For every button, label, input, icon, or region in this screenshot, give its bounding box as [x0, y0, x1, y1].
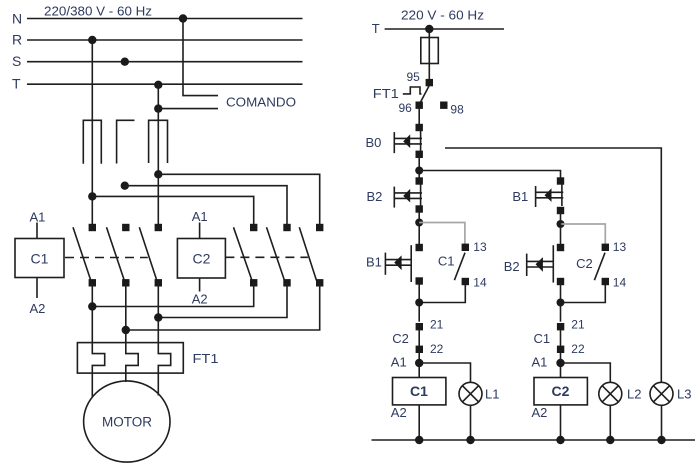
junction feeder 3 — [88, 192, 96, 200]
blade C2 13-14 — [594, 253, 605, 281]
wire pilot feeder to L3 — [445, 148, 661, 382]
fuse F2 — [117, 120, 135, 163]
junction A1 C2 — [556, 359, 564, 367]
wire latch C2 rejoin — [561, 285, 606, 303]
svg-text:R: R — [12, 32, 22, 48]
terminal 14 of C2 — [602, 278, 609, 285]
svg-text:C1: C1 — [410, 383, 428, 399]
svg-text:A2: A2 — [30, 301, 46, 316]
svg-text:220 V - 60 Hz: 220 V - 60 Hz — [401, 9, 484, 23]
pushbutton B1 NC — [536, 184, 564, 208]
wire comando tap — [158, 108, 218, 110]
wire control supply line — [385, 28, 504, 30]
heater element 1 — [92, 343, 104, 374]
junction feeder 2 — [121, 182, 129, 190]
wire B1s to junction — [418, 281, 420, 322]
svg-text:FT1: FT1 — [373, 86, 399, 101]
blade 21-22 of C1 — [560, 330, 562, 346]
junction branch to B1 column — [415, 167, 423, 175]
contactor coil C2 — [177, 239, 225, 279]
fuse F1 — [83, 120, 101, 163]
svg-text:220/380 V - 60 Hz: 220/380 V - 60 Hz — [44, 5, 152, 19]
wire A2 stub C1 — [36, 278, 38, 299]
terminal B2s bottom — [557, 278, 564, 285]
svg-text:C2: C2 — [552, 383, 570, 399]
terminal 22 of C1 — [557, 346, 564, 353]
wire line R — [27, 39, 303, 41]
wire lamp L3 to bus — [661, 405, 663, 440]
wire gray latch branch C2 — [561, 224, 606, 244]
wire 22 to A1 C1 — [418, 352, 420, 378]
terminal B1 top — [557, 177, 564, 184]
svg-text:A2: A2 — [391, 405, 407, 420]
wire bottom bus — [372, 439, 696, 441]
svg-text:C1: C1 — [438, 253, 455, 268]
wire lamp L1 to bus — [470, 405, 472, 440]
lamp L2 — [599, 382, 622, 405]
coil C2 box — [534, 378, 587, 405]
terminal 21 of C2 — [416, 323, 423, 330]
wire line N — [27, 18, 303, 20]
wire cross link contact6 — [126, 283, 320, 330]
terminal 13 of C2 — [602, 244, 609, 251]
wire cross link contact4 — [92, 283, 253, 307]
svg-text:96: 96 — [399, 101, 413, 115]
svg-text:T: T — [12, 76, 21, 92]
wire N drop to comando — [183, 19, 218, 96]
wire FT1 to motor 2 — [125, 373, 127, 382]
terminal 98 — [440, 102, 447, 109]
blade contact6 — [299, 227, 316, 280]
wire line T — [27, 83, 303, 85]
svg-text:98: 98 — [450, 103, 464, 117]
wire B2s to junction — [560, 282, 562, 322]
wire motor lead 1 — [91, 283, 93, 343]
terminal contact5 top — [283, 224, 290, 231]
wire motor lead 2 — [125, 283, 127, 343]
svg-text:B0: B0 — [366, 135, 382, 150]
wire branch to lamp L2 — [561, 363, 611, 382]
wire B1 to B2s — [560, 211, 562, 244]
wire feeder 2 to contact 5 — [125, 186, 287, 227]
blade contact1 — [73, 227, 91, 281]
svg-text:22: 22 — [571, 342, 585, 356]
mechanical link C2 dashed — [225, 256, 308, 258]
svg-text:T: T — [372, 21, 380, 36]
motor M1 circle — [84, 381, 170, 462]
terminal contact4 top — [250, 224, 257, 231]
svg-text:A1: A1 — [391, 354, 407, 369]
wire B0 to B2 — [418, 157, 420, 178]
junction bus L2 — [606, 436, 614, 444]
svg-text:21: 21 — [571, 318, 585, 332]
terminal 96 — [416, 102, 423, 109]
terminal contact2 bottom — [122, 279, 129, 286]
mechanical link C1 dashed — [65, 257, 148, 259]
svg-text:A2: A2 — [532, 405, 548, 420]
svg-text:FT1: FT1 — [193, 351, 219, 366]
junction below B1s — [415, 299, 423, 307]
svg-text:S: S — [12, 53, 21, 69]
pushbutton B0 NC — [394, 129, 422, 153]
junction control supply — [425, 25, 433, 33]
wire feeder 1 to contact 6 — [158, 174, 319, 227]
coil C1 box — [393, 378, 446, 405]
wire cross link contact5 — [158, 283, 287, 318]
junction bus L1 — [466, 436, 474, 444]
svg-text:C1: C1 — [31, 251, 49, 267]
svg-text:B1: B1 — [366, 255, 382, 270]
blade contact3 — [139, 227, 157, 281]
terminal B1 bottom — [557, 207, 564, 214]
terminal contact2 top — [122, 224, 129, 231]
blade contact5 — [267, 227, 285, 280]
terminal B1s bottom — [416, 277, 423, 284]
svg-text:B1: B1 — [512, 189, 528, 204]
blade 21-22 of C2 — [418, 330, 420, 346]
junction bus L3 — [657, 436, 665, 444]
junction on T — [154, 81, 162, 89]
junction latch C1 — [415, 219, 423, 227]
heater element 3 — [158, 343, 170, 374]
svg-text:MOTOR: MOTOR — [102, 415, 152, 430]
terminal B2 top — [416, 177, 423, 184]
junction cross link 3 — [154, 313, 162, 321]
terminal contact4 bottom — [250, 279, 257, 286]
terminal contact1 bottom — [89, 279, 96, 286]
junction latch C2 — [557, 220, 565, 228]
svg-text:B2: B2 — [367, 189, 383, 204]
terminal 21 of C1 — [557, 323, 564, 330]
terminal contact3 top — [155, 224, 162, 231]
wire motor lead 3 — [157, 283, 159, 343]
svg-text:C2: C2 — [576, 256, 593, 271]
fuse F3 — [149, 120, 168, 163]
junction bus C2 — [556, 436, 564, 444]
junction A1 C1 — [415, 359, 423, 367]
svg-text:N: N — [12, 11, 22, 27]
lamp L1 — [459, 382, 482, 405]
terminal 22 of C2 — [416, 346, 423, 353]
terminal B0 top — [416, 124, 423, 131]
svg-text:L2: L2 — [627, 387, 641, 402]
blade contact2 — [107, 227, 125, 281]
junction feeder 1 — [154, 170, 162, 178]
terminal B0 bottom — [416, 151, 423, 158]
wire FT1 to motor 3 — [157, 373, 159, 395]
wire R phase drop — [91, 40, 93, 227]
blade contact4 — [234, 227, 253, 280]
svg-text:L1: L1 — [485, 387, 499, 402]
svg-text:A1: A1 — [532, 354, 548, 369]
svg-text:COMANDO: COMANDO — [226, 95, 296, 110]
junction cross link 2 — [122, 326, 130, 334]
terminal contact6 bottom — [316, 279, 323, 286]
svg-text:C2: C2 — [193, 251, 211, 267]
svg-text:14: 14 — [613, 275, 627, 289]
terminal 13 of C1 — [462, 244, 469, 251]
terminal contact1 top — [89, 224, 96, 231]
wire A1 stub C2 — [199, 223, 201, 239]
junction comando tap — [154, 104, 162, 112]
svg-text:13: 13 — [473, 240, 487, 254]
contactor coil C1 — [15, 239, 64, 278]
junction below B2s — [557, 299, 565, 307]
junction on R — [88, 36, 96, 44]
wire latch C1 rejoin — [419, 285, 465, 303]
wire branch to lamp L1 — [419, 363, 470, 382]
wire 96 to B0 — [418, 108, 420, 125]
pushbutton B2 NO — [527, 245, 554, 282]
wire A1 stub C1 — [36, 223, 38, 239]
svg-text:21: 21 — [430, 318, 444, 332]
svg-text:B2: B2 — [504, 259, 520, 274]
svg-text:A1: A1 — [192, 209, 208, 224]
svg-text:A1: A1 — [30, 210, 46, 225]
wire feeder 3 to contact 4 — [92, 196, 253, 227]
terminal B2s top — [557, 244, 564, 251]
wire A2 stub C2 — [199, 278, 201, 292]
pushbutton B2 NC — [394, 184, 422, 208]
wire line S — [27, 61, 303, 63]
thermal element symbol FT1 — [403, 87, 422, 94]
terminal contact3 bottom — [155, 279, 162, 286]
junction on N — [179, 14, 187, 22]
svg-text:L3: L3 — [677, 387, 691, 402]
terminal B2 bottom — [416, 205, 423, 212]
wire lamp L2 to bus — [609, 405, 611, 440]
heater element 2 — [126, 343, 138, 374]
wire T phase drop — [157, 84, 159, 227]
svg-text:C1: C1 — [534, 331, 551, 346]
wire B2 to junction — [418, 209, 420, 244]
terminal B1s top — [416, 244, 423, 251]
junction cross link 1 — [88, 302, 96, 310]
terminal contact5 bottom — [283, 279, 290, 286]
lamp L3 — [650, 382, 673, 405]
pushbutton B1 NO — [385, 245, 411, 282]
junction bus C1 — [415, 436, 423, 444]
terminal 95 — [426, 79, 433, 86]
fuse control circuit — [421, 38, 439, 64]
wire gray latch branch C1 — [419, 223, 465, 245]
terminal contact6 top — [316, 224, 323, 231]
terminal 14 of C1 — [462, 278, 469, 285]
wire FT1 to motor 1 — [91, 373, 93, 397]
svg-text:13: 13 — [613, 240, 627, 254]
svg-text:22: 22 — [430, 342, 444, 356]
wire supply to fuse — [428, 29, 430, 83]
wire branch to B1 column — [419, 171, 560, 178]
wire coil C2 to bus — [560, 405, 562, 440]
overload relay FT1 box — [77, 343, 183, 374]
junction on S — [121, 58, 129, 66]
blade C1 13-14 — [454, 253, 465, 281]
blade FT1 95-96 — [420, 86, 429, 103]
svg-text:C2: C2 — [392, 331, 409, 346]
svg-text:95: 95 — [407, 70, 421, 84]
svg-text:A2: A2 — [192, 292, 208, 307]
wire 22 to A1 C2 — [560, 352, 562, 378]
wire coil C1 to bus — [418, 405, 420, 440]
svg-text:14: 14 — [473, 275, 487, 289]
